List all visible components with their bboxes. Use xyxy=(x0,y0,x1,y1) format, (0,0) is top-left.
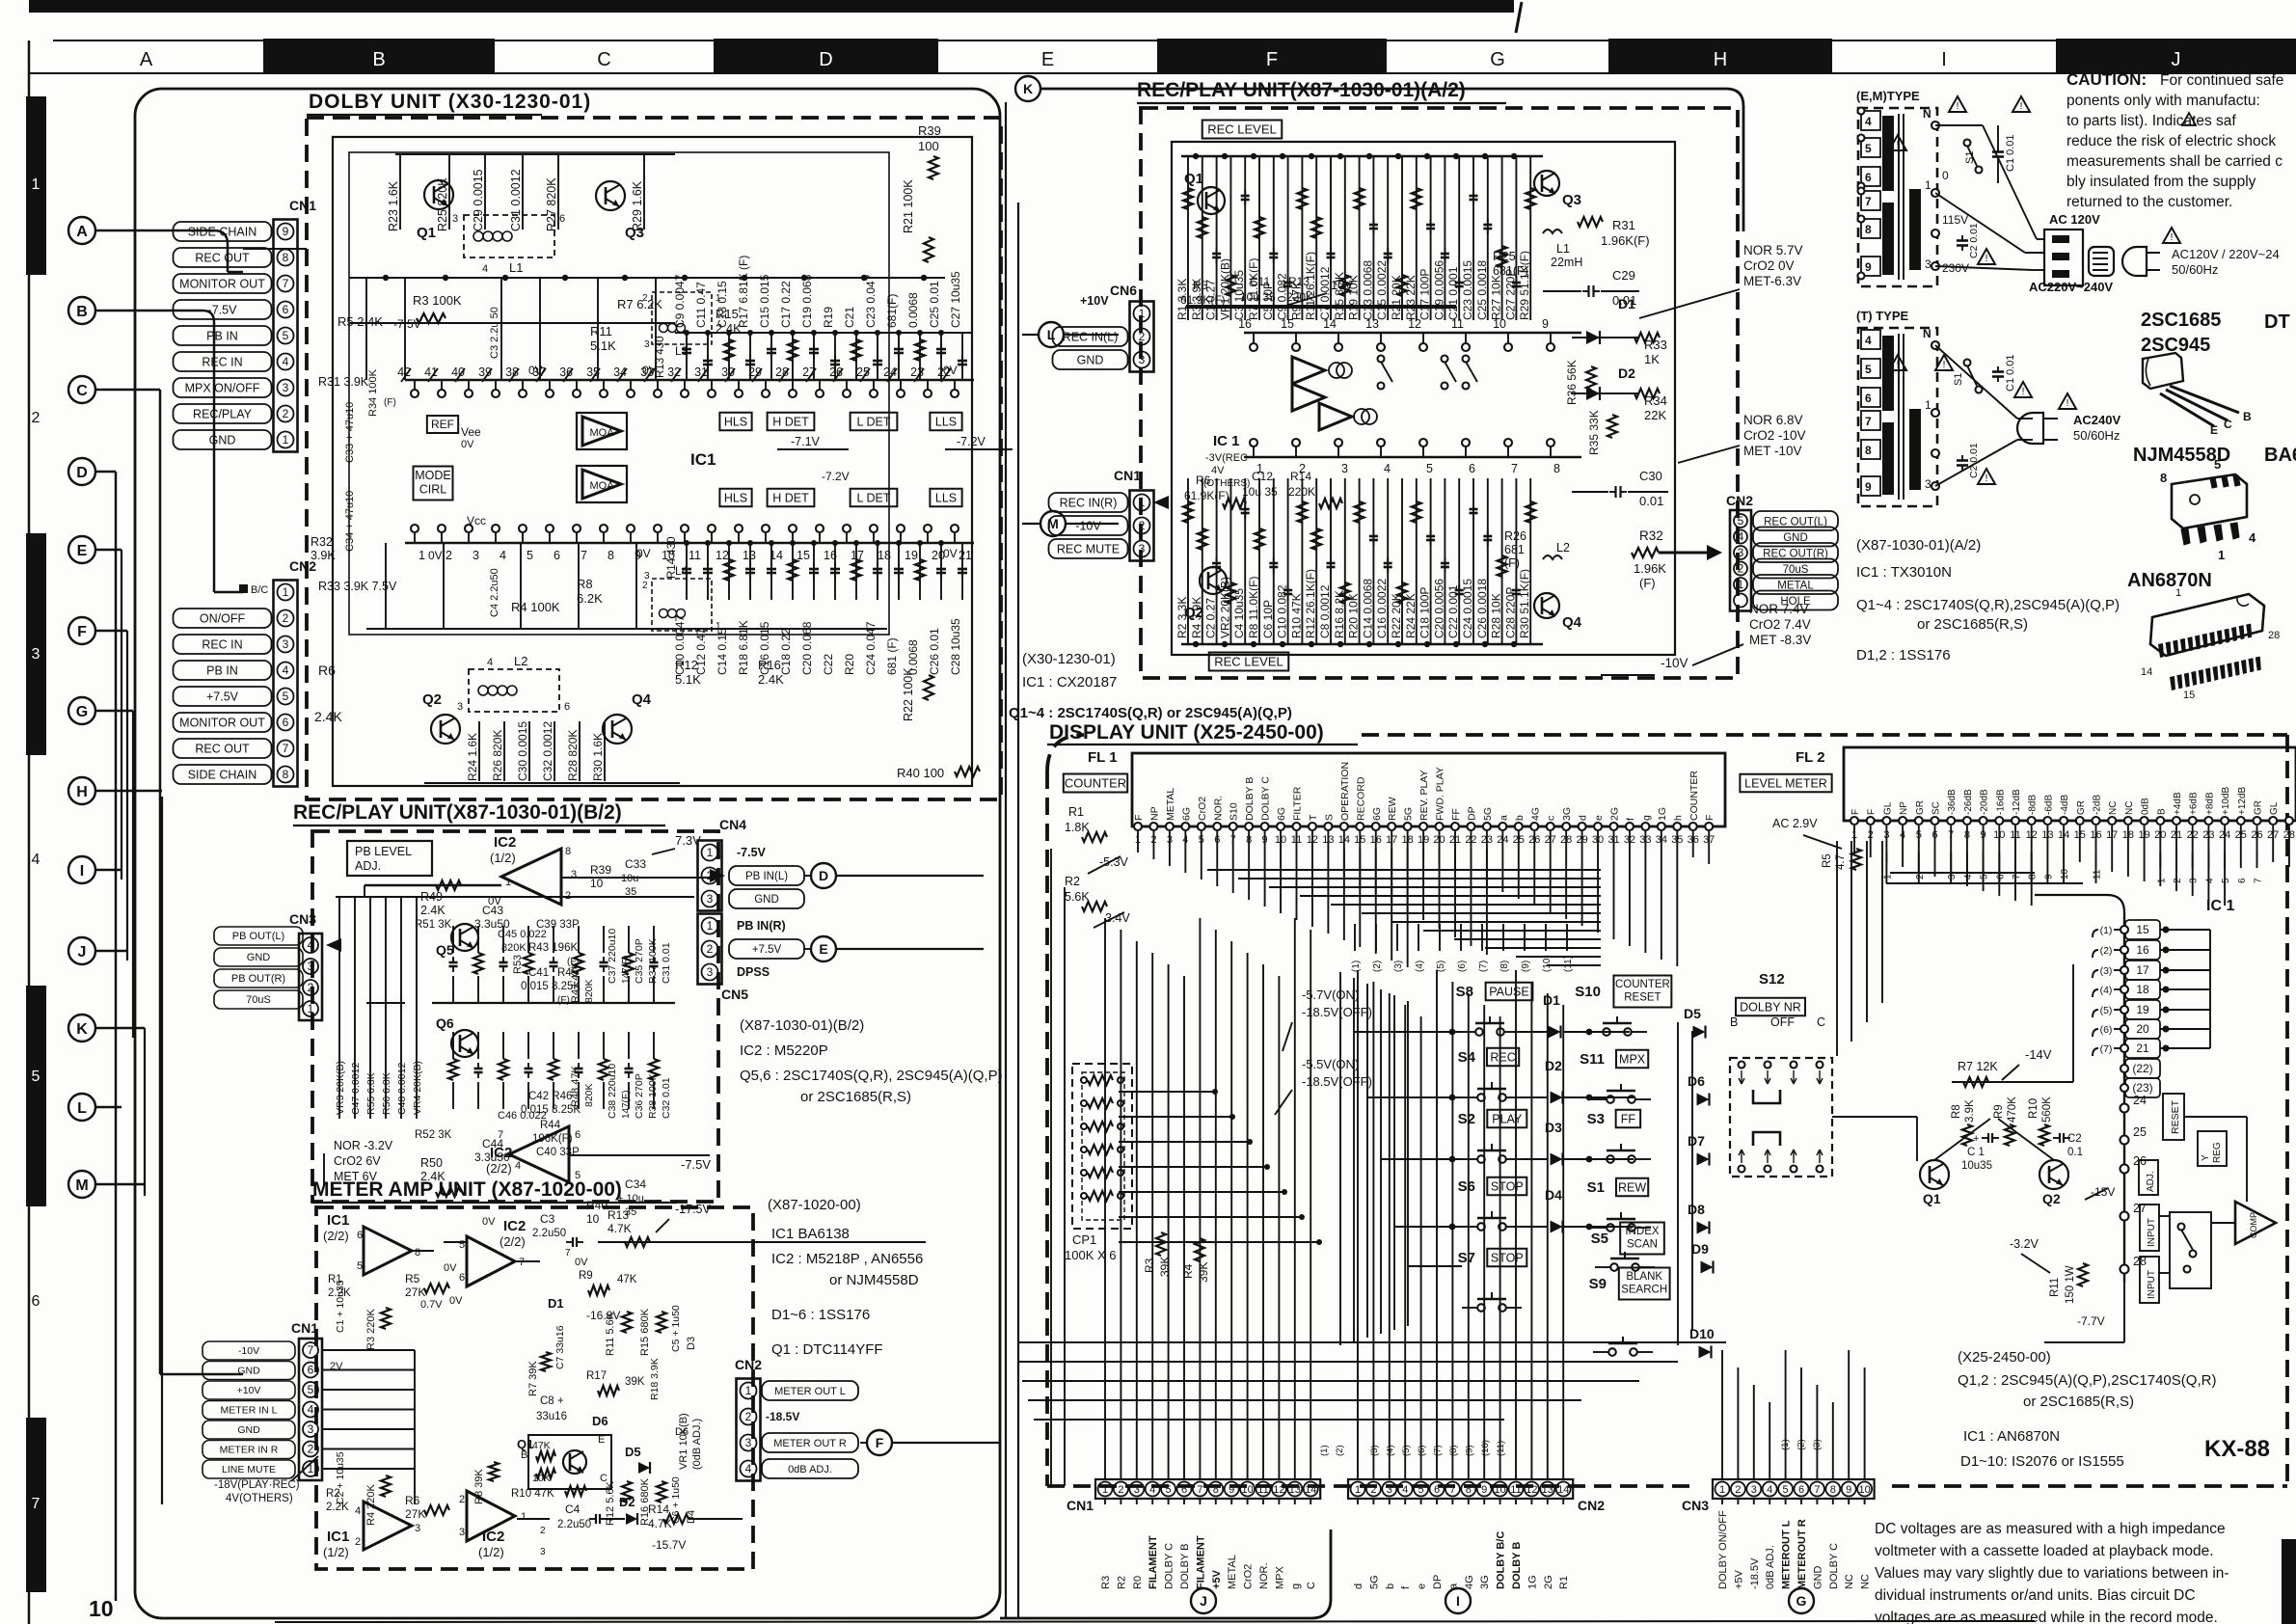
svg-text:C23 0.0015: C23 0.0015 xyxy=(1461,260,1474,320)
component C30 0.0015 xyxy=(528,721,530,781)
svg-text:7: 7 xyxy=(2254,878,2264,883)
component R19 (rec/play top) xyxy=(1359,156,1361,320)
svg-text:2: 2 xyxy=(1915,874,1926,880)
svg-text:R52 3K: R52 3K xyxy=(415,1129,452,1141)
S12 U-shaped contacts xyxy=(1753,1090,1780,1103)
switch S8 contacts xyxy=(1475,1028,1483,1036)
diode D8 xyxy=(1697,1222,1710,1234)
METER AMP dashed box xyxy=(316,1207,753,1569)
svg-text:7: 7 xyxy=(1814,1484,1820,1496)
svg-text:8: 8 xyxy=(1466,1484,1472,1496)
svg-text:C47 0.0012: C47 0.0012 xyxy=(350,1063,362,1115)
svg-text:F: F xyxy=(1704,815,1715,821)
svg-text:K: K xyxy=(1023,81,1033,96)
svg-text:1: 1 xyxy=(716,621,721,632)
component C20 lower bank xyxy=(813,543,815,600)
svg-text:FILTER: FILTER xyxy=(1292,786,1304,821)
REC/PLAY A/2 dashed box xyxy=(1141,108,1738,678)
cn1 meter labels xyxy=(203,1341,295,1360)
svg-text:D1~6 : 1SS176: D1~6 : 1SS176 xyxy=(771,1307,870,1323)
component C17 (rec/play top) xyxy=(1430,156,1432,320)
svg-text:(X25-2450-00): (X25-2450-00) xyxy=(1958,1349,2051,1366)
node K (left margin) xyxy=(68,1015,95,1042)
L DET box upper xyxy=(851,413,898,431)
svg-text:2: 2 xyxy=(283,611,289,625)
svg-text:FF: FF xyxy=(1450,808,1462,821)
HLS box upper xyxy=(719,413,751,431)
svg-text:9: 9 xyxy=(2043,874,2054,880)
wire B to CN2 xyxy=(95,310,203,312)
svg-text:10: 10 xyxy=(89,1596,114,1621)
svg-text:10: 10 xyxy=(2060,868,2070,880)
svg-text:CN1: CN1 xyxy=(291,1320,318,1336)
T2 warning triangles xyxy=(1889,355,1906,370)
transistor Q1 (rec/play) xyxy=(1198,187,1225,214)
svg-text:REC IN: REC IN xyxy=(202,356,242,369)
svg-text:-16dB: -16dB xyxy=(1995,789,2006,815)
svg-text:16: 16 xyxy=(1238,317,1252,331)
svg-text:C2 0.01: C2 0.01 xyxy=(1968,223,1980,258)
svg-text:C21 0.001: C21 0.001 xyxy=(1446,266,1460,320)
svg-text:7: 7 xyxy=(1865,415,1872,428)
svg-text:5.6K: 5.6K xyxy=(1065,890,1090,904)
svg-text:FILAMENT: FILAMENT xyxy=(1195,1535,1206,1589)
svg-text:C28 10u35: C28 10u35 xyxy=(949,618,962,675)
svg-text:R11 5.6K: R11 5.6K xyxy=(605,1312,616,1356)
svg-text:C5 + 1u50: C5 + 1u50 xyxy=(670,1305,682,1352)
bundle vertical long xyxy=(161,797,163,1504)
svg-text:R10: R10 xyxy=(2028,1098,2039,1119)
svg-text:DT: DT xyxy=(2264,311,2290,333)
svg-text:3: 3 xyxy=(707,892,714,906)
svg-text:Y: Y xyxy=(2201,1154,2211,1161)
transistor Q2 (dolby) xyxy=(431,715,460,744)
svg-text:1K: 1K xyxy=(1644,352,1660,366)
node E circle (cn5) xyxy=(811,936,836,961)
svg-text:STOP: STOP xyxy=(1491,1251,1524,1264)
switch S1 contacts xyxy=(1607,1224,1614,1232)
svg-text:R28 10K: R28 10K xyxy=(1490,593,1503,638)
svg-text:C1 0.01: C1 0.01 xyxy=(2005,354,2016,392)
svg-text:B: B xyxy=(2156,808,2167,815)
svg-text:(2): (2) xyxy=(1372,961,1383,972)
svg-text:3: 3 xyxy=(644,339,650,350)
svg-text:GL: GL xyxy=(2269,801,2280,815)
svg-text:13: 13 xyxy=(743,549,756,562)
svg-text:GND: GND xyxy=(237,1424,260,1436)
connector CN3 (display bottom) xyxy=(1713,1479,1875,1499)
svg-text:d: d xyxy=(1353,1583,1364,1589)
component R16 (rec/play bottom) xyxy=(1344,478,1346,644)
svg-text:IC2 : M5220P: IC2 : M5220P xyxy=(740,1042,828,1059)
svg-text:5: 5 xyxy=(1166,1484,1172,1496)
svg-text:(2): (2) xyxy=(2100,945,2113,957)
svg-text:C30: C30 xyxy=(1639,469,1662,483)
wire M xyxy=(95,1183,145,1186)
DIP-8 pins xyxy=(2181,528,2190,545)
svg-text:METER OUT R: METER OUT R xyxy=(773,1438,847,1449)
svg-text:11: 11 xyxy=(689,549,701,562)
svg-text:3: 3 xyxy=(1738,546,1744,559)
svg-text:115V: 115V xyxy=(1942,213,1968,227)
INPUT box 1 xyxy=(2140,1204,2159,1251)
svg-text:-10V: -10V xyxy=(238,1345,259,1357)
svg-text:C15 0.015: C15 0.015 xyxy=(758,274,771,328)
svg-text:+: + xyxy=(1973,1133,1979,1145)
svg-text:10u 35: 10u 35 xyxy=(1240,290,1276,304)
FL2 pins and labels xyxy=(1850,817,1858,825)
svg-text:C25 0.0018: C25 0.0018 xyxy=(1475,260,1489,320)
component 0.0068 upper bank xyxy=(919,333,921,380)
svg-text:3: 3 xyxy=(457,701,463,713)
svg-text:METEROUT R: METEROUT R xyxy=(1796,1519,1808,1589)
svg-text:C4: C4 xyxy=(565,1502,581,1516)
svg-text:560K: 560K xyxy=(2041,1096,2053,1123)
svg-text:NP: NP xyxy=(1148,806,1160,821)
wire F xyxy=(95,630,127,633)
svg-text:R13: R13 xyxy=(1288,275,1310,288)
svg-text:D: D xyxy=(819,868,828,883)
svg-text:3: 3 xyxy=(452,213,458,225)
svg-text:(T) TYPE: (T) TYPE xyxy=(1856,309,1908,323)
component C11 upper bank xyxy=(707,333,709,380)
long horizontals lower mid xyxy=(1018,1341,1726,1343)
svg-text:6: 6 xyxy=(459,1272,465,1284)
svg-text:d: d xyxy=(1578,815,1589,821)
svg-text:e: e xyxy=(1417,1583,1428,1589)
svg-text:R30 51.1K(F): R30 51.1K(F) xyxy=(1518,569,1531,638)
svg-text:L: L xyxy=(77,1100,87,1117)
svg-text:!: ! xyxy=(1897,140,1900,150)
component C16 (rec/play bottom) xyxy=(1387,478,1389,644)
svg-text:A: A xyxy=(140,49,153,70)
svg-text:(X87-1020-00): (X87-1020-00) xyxy=(768,1197,861,1213)
component R15 (rec/play top) xyxy=(1344,156,1346,320)
svg-text:STOP: STOP xyxy=(1491,1179,1524,1193)
svg-text:+10dB: +10dB xyxy=(2221,786,2231,815)
svg-text:15: 15 xyxy=(2136,923,2149,936)
component C19 upper bank xyxy=(813,333,815,380)
component C26 lower bank xyxy=(940,543,942,600)
svg-text:-7.7V: -7.7V xyxy=(2077,1314,2105,1328)
svg-text:RESET: RESET xyxy=(2170,1099,2181,1134)
IC1 right bus vertical xyxy=(2209,930,2211,1048)
svg-text:C: C xyxy=(1817,1015,1825,1029)
svg-text:C: C xyxy=(1306,1582,1317,1589)
svg-text:AC 2.9V: AC 2.9V xyxy=(1772,817,1818,830)
svg-text:VR4 20K(B): VR4 20K(B) xyxy=(412,1061,423,1115)
component C28 (rec/play bottom) xyxy=(1515,478,1517,644)
svg-text:8: 8 xyxy=(1830,1484,1836,1496)
svg-text:-18.5V(OFF): -18.5V(OFF) xyxy=(1302,1074,1372,1089)
right edge black bar xyxy=(2282,1539,2296,1624)
svg-text:C21: C21 xyxy=(843,307,856,328)
component C5 (rec/play top) xyxy=(1273,156,1275,320)
svg-text:G: G xyxy=(1490,49,1505,70)
capacitor C2 0.01 (T1) xyxy=(1961,235,1963,241)
svg-text:R40: R40 xyxy=(586,1199,608,1212)
svg-text:Q1~4 : 2SC1740S(Q,R),2SC945(A): Q1~4 : 2SC1740S(Q,R),2SC945(A)(Q,P) xyxy=(1856,597,2120,613)
svg-text:CN3: CN3 xyxy=(1682,1498,1709,1513)
svg-text:8: 8 xyxy=(2160,471,2167,485)
svg-text:26: 26 xyxy=(2133,1154,2147,1168)
svg-text:REC IN(L): REC IN(L) xyxy=(1063,331,1119,344)
svg-text:ON/OFF: ON/OFF xyxy=(200,612,246,626)
svg-text:REF: REF xyxy=(431,418,454,431)
warning triangle 2 xyxy=(2012,96,2030,112)
component R27 (rec/play top) xyxy=(1501,156,1503,320)
svg-text:COUNTER: COUNTER xyxy=(1615,979,1670,990)
svg-text:IC 1: IC 1 xyxy=(1213,433,1240,449)
svg-text:IC1: IC1 xyxy=(327,1529,349,1545)
svg-text:1: 1 xyxy=(1738,578,1744,591)
svg-text:1: 1 xyxy=(1139,496,1146,509)
svg-text:L2: L2 xyxy=(514,654,527,668)
svg-text:R53: R53 xyxy=(512,955,524,974)
svg-text:(8): (8) xyxy=(1448,1445,1459,1456)
svg-text:IC1: IC1 xyxy=(690,450,716,469)
svg-text:-7.5V: -7.5V xyxy=(681,1157,711,1172)
svg-text:7: 7 xyxy=(581,549,587,562)
svg-text:47K: 47K xyxy=(617,1274,637,1286)
svg-text:C31 0.01: C31 0.01 xyxy=(661,942,672,984)
svg-text:3: 3 xyxy=(1387,1484,1392,1496)
component C26 (rec/play bottom) xyxy=(1487,478,1489,644)
svg-text:E: E xyxy=(77,543,88,559)
FL1 wire drops xyxy=(1137,830,1139,853)
svg-text:(4): (4) xyxy=(1385,1445,1395,1456)
H DET box upper xyxy=(768,413,815,431)
svg-text:DOLBY C: DOLBY C xyxy=(1828,1543,1840,1589)
svg-text:VR2 20K(B): VR2 20K(B) xyxy=(1218,577,1231,638)
svg-text:(4): (4) xyxy=(1415,961,1425,972)
component R19 upper bank xyxy=(834,333,836,380)
component C20 (rec/play bottom) xyxy=(1444,478,1445,644)
svg-text:AN6870N: AN6870N xyxy=(2127,570,2212,591)
LEVEL METER box label xyxy=(1740,774,1831,793)
svg-text:8: 8 xyxy=(1553,462,1560,475)
svg-text:CN1: CN1 xyxy=(1114,468,1141,483)
svg-text:COMP: COMP xyxy=(2249,1212,2258,1238)
top boundary wire to right xyxy=(1041,88,1726,91)
svg-text:5: 5 xyxy=(283,329,289,342)
svg-text:PB OUT(L): PB OUT(L) xyxy=(232,931,284,942)
REF box xyxy=(427,416,458,433)
wire J xyxy=(95,950,127,953)
svg-text:5.1K: 5.1K xyxy=(675,672,701,687)
svg-text:CN1: CN1 xyxy=(1067,1498,1094,1513)
svg-text:4: 4 xyxy=(500,549,506,562)
svg-text:R3: R3 xyxy=(1100,1576,1112,1589)
switch matrix frame wires xyxy=(1339,972,1341,1345)
svg-text:6: 6 xyxy=(564,701,570,713)
svg-text:L DET: L DET xyxy=(857,491,891,504)
svg-text:For continued safe: For continued safe xyxy=(2160,72,2283,89)
svg-text:10u: 10u xyxy=(621,873,638,884)
component 681(F) upper bank xyxy=(898,333,900,380)
svg-text:Q1: Q1 xyxy=(1923,1191,1941,1206)
ADJ. box xyxy=(2139,1160,2158,1195)
meter amp internal bus wires xyxy=(323,1350,325,1587)
svg-text:50/60Hz: 50/60Hz xyxy=(2172,262,2218,277)
REC/PLAY B/2 dashed box xyxy=(312,831,718,1202)
FL1 bus horizontals xyxy=(1207,869,1601,871)
svg-text:REC/PLAY: REC/PLAY xyxy=(193,408,253,421)
svg-text:7: 7 xyxy=(1449,1484,1455,1496)
svg-text:C10 0.082: C10 0.082 xyxy=(1276,584,1289,638)
svg-text:CN2: CN2 xyxy=(735,1357,762,1372)
svg-text:1: 1 xyxy=(716,293,721,304)
svg-text:CrO2 0V: CrO2 0V xyxy=(1743,258,1795,273)
svg-text:NOR 6.8V: NOR 6.8V xyxy=(1743,413,1803,427)
LLS box lower xyxy=(930,489,961,507)
svg-text:1: 1 xyxy=(505,877,511,888)
svg-text:C1 0.01: C1 0.01 xyxy=(2005,134,2016,172)
svg-text:C42 R46: C42 R46 xyxy=(528,1091,572,1102)
svg-text:REC IN(R): REC IN(R) xyxy=(1060,497,1118,510)
svg-text:(22): (22) xyxy=(2132,1062,2152,1075)
svg-text:3: 3 xyxy=(283,637,289,651)
svg-text:25: 25 xyxy=(2133,1125,2147,1139)
svg-text:R22 20K: R22 20K xyxy=(1390,593,1403,638)
svg-text:10K: 10K xyxy=(532,1473,551,1484)
svg-text:SIDE CHAIN: SIDE CHAIN xyxy=(188,769,257,782)
svg-text:f: f xyxy=(1625,818,1636,821)
svg-text:-17.5V: -17.5V xyxy=(675,1203,711,1216)
svg-text:R55 6.8K: R55 6.8K xyxy=(365,1072,377,1115)
svg-text:R5 2.4K: R5 2.4K xyxy=(338,314,383,329)
svg-text:B/C: B/C xyxy=(251,584,268,596)
switch row feed wires xyxy=(1354,1031,1460,1033)
svg-text:1.96K(F): 1.96K(F) xyxy=(1601,233,1650,248)
svg-text:2.2u50: 2.2u50 xyxy=(532,1228,566,1239)
svg-text:-14V: -14V xyxy=(2025,1047,2052,1062)
svg-text:S1: S1 xyxy=(1587,1179,1605,1196)
diode D2 xyxy=(1551,1092,1563,1104)
svg-text:9: 9 xyxy=(1846,1484,1851,1496)
svg-text:HLS: HLS xyxy=(724,415,747,428)
svg-text:B: B xyxy=(1730,1015,1738,1029)
svg-text:MONITOR OUT: MONITOR OUT xyxy=(179,717,265,730)
svg-text:C31 0.0012: C31 0.0012 xyxy=(509,169,523,231)
svg-text:C19 0.0056: C19 0.0056 xyxy=(1432,260,1445,320)
diode D1 xyxy=(1549,1026,1561,1039)
switch S7 contacts xyxy=(1477,1304,1485,1312)
diode D7 xyxy=(1697,1153,1710,1166)
svg-text:METAL: METAL xyxy=(1227,1555,1238,1589)
svg-text:(X30-1230-01): (X30-1230-01) xyxy=(1022,651,1116,667)
svg-text:R11: R11 xyxy=(590,324,612,338)
transistor Q2 (display) xyxy=(2039,1160,2068,1189)
svg-text:L1: L1 xyxy=(1556,242,1570,256)
svg-text:(6): (6) xyxy=(2100,1024,2113,1036)
svg-text:3: 3 xyxy=(308,960,314,973)
svg-text:CN1: CN1 xyxy=(289,198,316,213)
svg-text:PB IN(L): PB IN(L) xyxy=(745,871,788,882)
svg-text:h: h xyxy=(1672,815,1684,821)
IC1 top curve to FL2 xyxy=(2035,895,2124,912)
svg-text:S5: S5 xyxy=(1591,1231,1608,1247)
svg-text:4: 4 xyxy=(308,1403,314,1417)
cn2 meter labels xyxy=(762,1381,858,1400)
svg-text:39K: 39K xyxy=(1158,1257,1172,1277)
thick 10V bus xyxy=(1186,305,1456,309)
svg-text:R32: R32 xyxy=(1639,528,1663,543)
svg-text:5: 5 xyxy=(1783,1484,1789,1496)
FL2 right drop labels xyxy=(2159,853,2161,868)
svg-text:2: 2 xyxy=(642,581,648,591)
component R17 upper bank xyxy=(749,333,751,380)
svg-text:7: 7 xyxy=(1865,195,1872,208)
H DET box lower xyxy=(768,489,815,507)
diode D5 xyxy=(1693,1026,1706,1039)
switch S6 contacts xyxy=(1477,1223,1485,1231)
svg-text:Q2: Q2 xyxy=(422,691,442,708)
svg-text:4G: 4G xyxy=(1529,807,1541,821)
svg-text:1: 1 xyxy=(32,176,41,193)
svg-text:(9): (9) xyxy=(1521,961,1531,972)
svg-text:Vcc: Vcc xyxy=(467,514,486,528)
svg-text:REC MUTE: REC MUTE xyxy=(1057,543,1120,556)
component R9 (rec/play top) xyxy=(1301,156,1303,320)
svg-text:NC: NC xyxy=(2124,801,2135,815)
wire I xyxy=(95,869,122,872)
svg-text:M: M xyxy=(75,1177,88,1194)
svg-text:3: 3 xyxy=(308,1422,314,1436)
svg-text:T: T xyxy=(1308,814,1319,821)
svg-text:3.9K: 3.9K xyxy=(1964,1099,1976,1123)
dolby IC1 bottom pin row xyxy=(405,542,974,544)
svg-text:C6 + 1u50: C6 + 1u50 xyxy=(670,1476,682,1524)
component C22 lower bank xyxy=(834,543,836,600)
svg-text:-12dB: -12dB xyxy=(2012,789,2022,815)
svg-text:(1): (1) xyxy=(2100,925,2113,936)
rec/play inner box xyxy=(1172,142,1675,655)
svg-text:C 1: C 1 xyxy=(1967,1147,1985,1158)
svg-text:3: 3 xyxy=(1925,477,1931,491)
FL1 deep drops xyxy=(1343,849,1345,877)
wires T2 to plug xyxy=(1935,345,2017,419)
component C21 upper bank xyxy=(855,333,857,380)
svg-text:2: 2 xyxy=(32,410,41,426)
svg-text:3: 3 xyxy=(644,571,650,582)
svg-text:-7.2V: -7.2V xyxy=(822,470,850,483)
component C1 (rec/play top) xyxy=(1216,156,1218,320)
svg-text:F: F xyxy=(876,1435,884,1450)
node J circle (bottom) xyxy=(1191,1588,1216,1613)
svg-text:C26 0.01: C26 0.01 xyxy=(928,628,941,675)
svg-text:N: N xyxy=(1923,107,1931,121)
svg-text:7: 7 xyxy=(2012,874,2022,880)
svg-text:R29 51.1K(F): R29 51.1K(F) xyxy=(1518,251,1531,320)
svg-text:0V: 0V xyxy=(943,547,958,560)
svg-text:0V: 0V xyxy=(449,1295,463,1307)
svg-text:H: H xyxy=(1714,49,1727,70)
component R26 820K xyxy=(503,721,505,781)
dolby top component bank xyxy=(395,153,675,155)
svg-text:R7 11.0K(F): R7 11.0K(F) xyxy=(1247,258,1260,320)
svg-text:R23 22K: R23 22K xyxy=(1404,275,1418,320)
svg-text:a: a xyxy=(1498,815,1509,821)
svg-text:C2 + 10u35: C2 + 10u35 xyxy=(335,1451,346,1504)
svg-text:GR: GR xyxy=(2254,800,2264,815)
svg-text:0V: 0V xyxy=(575,1257,588,1268)
plug round (240V) xyxy=(2122,247,2147,276)
svg-text:C17 0.22: C17 0.22 xyxy=(779,281,793,328)
svg-text:RECORD: RECORD xyxy=(1355,776,1366,821)
svg-text:Q4: Q4 xyxy=(1562,614,1582,631)
svg-text:1: 1 xyxy=(745,1384,752,1397)
